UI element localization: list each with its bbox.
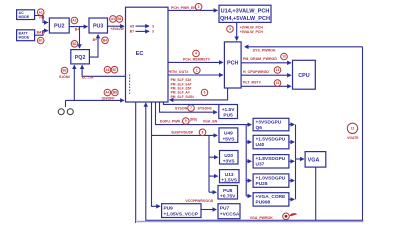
svg-text:+1.5V: +1.5V [222, 107, 235, 113]
second column feed bus [246, 125, 251, 196]
first column feed bus [209, 135, 218, 192]
svg-text:PLT_RST#: PLT_RST# [243, 80, 261, 84]
wire BATT MODE to PU2 (BATT) [35, 31, 48, 36]
svg-text:BATT: BATT [37, 31, 47, 35]
wire SYS_PWROK into PCH [245, 46, 363, 48]
svg-text:7: 7 [190, 106, 192, 110]
svg-text:EC_ON: EC_ON [82, 75, 94, 79]
callout B8 [112, 89, 119, 96]
svg-text:B+: B+ [93, 38, 97, 42]
svg-text:MODE: MODE [19, 15, 30, 19]
svg-text:EC: EC [136, 51, 144, 57]
callout 6 [201, 89, 208, 96]
EC internal page ref A5 [130, 24, 154, 28]
svg-text:+1.5VSDGPU: +1.5VSDGPU [256, 137, 286, 143]
svg-text:3: 3 [152, 30, 154, 34]
svg-text:A6: A6 [105, 68, 109, 72]
svg-text:PU5: PU5 [223, 113, 233, 119]
svg-text:PU998: PU998 [256, 200, 271, 206]
svg-text:A3: A3 [111, 17, 115, 21]
page border bottom [137, 221, 363, 223]
svg-text:+3VSDGPU: +3VSDGPU [256, 120, 282, 126]
svg-text:+3VALW: +3VALW [110, 27, 124, 31]
wire EC stub to DGPU_PWR_EN row [156, 102, 247, 125]
EC internal page ref B7 [130, 30, 154, 34]
svg-text:11: 11 [351, 127, 355, 131]
svg-text:PU2: PU2 [54, 24, 65, 30]
svg-text:H_CPUPWRGD: H_CPUPWRGD [243, 70, 269, 74]
wire EC stub to PU5 top [164, 102, 219, 104]
svg-text:B+: B+ [75, 28, 79, 32]
callout A2 [71, 17, 78, 24]
svg-text:A5: A5 [130, 24, 134, 28]
svg-text:VGA_EN: VGA_EN [203, 119, 218, 123]
svg-text:+5VS: +5VS [222, 136, 235, 142]
block VGA [305, 152, 326, 168]
svg-text:B4: B4 [103, 39, 107, 43]
svg-text:VCCPPWRGOOD: VCCPPWRGOOD [186, 199, 214, 203]
callout 8 [199, 129, 206, 136]
svg-text:B7: B7 [130, 30, 134, 34]
callout 2 [195, 4, 202, 11]
wire PU9 to PU7 [201, 209, 216, 211]
svg-text:2: 2 [198, 5, 200, 9]
svg-text:SYSON#: SYSON# [197, 107, 211, 111]
block EC [126, 7, 169, 102]
callout 13 [281, 53, 288, 60]
svg-text:+1.5VS: +1.5VS [221, 178, 238, 184]
svg-text:VGATE: VGATE [347, 136, 359, 140]
callout B2 [71, 41, 78, 48]
svg-text:4: 4 [195, 52, 197, 56]
callout B4 [102, 37, 109, 44]
svg-text:ON/OFF: ON/OFF [102, 97, 115, 101]
block AC MODE [17, 10, 35, 20]
svg-text:U13: U13 [225, 172, 234, 178]
wire PM_SLF bus PCH to EC [170, 88, 228, 100]
svg-text:9: 9 [185, 119, 187, 123]
svg-text:A2: A2 [72, 19, 76, 23]
svg-text:PU28: PU28 [256, 181, 268, 187]
svg-text:+3VS: +3VS [223, 159, 236, 165]
svg-text:CPU: CPU [298, 73, 309, 79]
svg-text:+1.8VSDGPU: +1.8VSDGPU [256, 156, 286, 162]
svg-text:A4: A4 [105, 91, 109, 95]
callout 9 [183, 118, 190, 125]
wire PQ2 to PU3 bottom (B+) [89, 35, 98, 57]
wire S1ON# PQ2 to ON/OFF row [73, 66, 75, 101]
svg-text:U14,+3VALW_PCH: U14,+3VALW_PCH [221, 9, 270, 15]
block PU7 [218, 204, 240, 219]
wire EC bottom stub to page bottom [135, 102, 137, 223]
svg-text:+5VALW_PCH: +5VALW_PCH [240, 30, 264, 34]
svg-text:6: 6 [204, 91, 206, 95]
callout B6 [116, 16, 123, 23]
callout B1 [37, 37, 44, 44]
wire AC MODE to PU2 (VIN) [35, 16, 48, 23]
block PQ2 [71, 50, 90, 64]
svg-text:B1: B1 [39, 39, 43, 43]
power button contacts [58, 109, 73, 115]
block BATT MODE [17, 30, 35, 41]
wire PCH to CPU (PLT_RST#) [241, 85, 291, 87]
callout A6 [104, 66, 111, 73]
svg-text:B8: B8 [113, 91, 117, 95]
second column collect bus to VGA [289, 125, 304, 200]
svg-text:SYSON: SYSON [175, 107, 188, 111]
svg-text:SUSP#/SUSP: SUSP#/SUSP [171, 131, 194, 135]
block U20 [220, 151, 239, 165]
callout B7 [111, 66, 118, 73]
svg-text:1: 1 [196, 69, 198, 73]
callout 16 [283, 213, 298, 220]
block PU2 [49, 18, 69, 33]
svg-text:Q6: Q6 [256, 125, 263, 131]
wire SYS_PWROK loop rail [146, 47, 363, 221]
block PCH [224, 42, 241, 88]
callout 1 [194, 67, 201, 74]
svg-text:3: 3 [229, 27, 231, 31]
block Q6 [253, 118, 289, 131]
wire VGA to bottom rail (VGA_PWROK) [315, 167, 317, 220]
block PU3 [89, 18, 108, 33]
callout 11 (VGATE) [347, 123, 357, 133]
callout 14 [274, 67, 281, 74]
svg-text:VGA: VGA [308, 158, 320, 164]
svg-text:U40: U40 [256, 142, 265, 148]
block U14 regulator [219, 5, 271, 22]
svg-text:+VCCSA: +VCCSA [220, 212, 240, 218]
svg-text:PU8: PU8 [223, 188, 233, 194]
svg-text:B6: B6 [117, 17, 121, 21]
svg-text:14: 14 [276, 68, 280, 72]
svg-text:13: 13 [282, 55, 286, 59]
block U13 [220, 170, 240, 184]
wire PCH to CPU (PM_DRAM_PWRGD) [241, 62, 291, 64]
wire ON/OFF row into EC [66, 99, 124, 101]
svg-text:15: 15 [276, 81, 280, 85]
wire EC stub to SYSON row into PU5 [160, 102, 217, 112]
svg-text:SYS_PWROK: SYS_PWROK [253, 48, 276, 52]
block PU8 [218, 186, 238, 200]
svg-text:PU3: PU3 [93, 24, 104, 30]
svg-text:(DIS): (DIS) [190, 117, 197, 121]
svg-text:QH4,+5VALW_PCH: QH4,+5VALW_PCH [220, 16, 270, 22]
svg-text:MODE: MODE [19, 35, 30, 39]
svg-text:S1ON#: S1ON# [59, 75, 70, 79]
svg-text:B2: B2 [72, 42, 76, 46]
svg-text:PCH_PWR_EN#: PCH_PWR_EN# [171, 6, 198, 10]
wire EC to U14 (PCH_PWR_EN#) [168, 9, 217, 11]
block PU5 [219, 105, 238, 119]
svg-text:VIN: VIN [39, 15, 45, 19]
block PU998 [253, 193, 289, 206]
svg-text:8: 8 [202, 131, 204, 135]
wire PCH to CPU (H_CPUPWRGD) [241, 74, 291, 76]
callout 7 [188, 105, 195, 112]
svg-text:PU7: PU7 [220, 206, 230, 212]
wire EC stub to SUSP row and PU9 [152, 102, 218, 206]
callout 3 [227, 26, 234, 33]
block U40 [253, 135, 289, 149]
svg-text:U49: U49 [224, 130, 233, 136]
block U37 [253, 155, 289, 168]
svg-text:+1.05VS_VCCP: +1.05VS_VCCP [164, 212, 199, 218]
wire U14 to PCH [236, 22, 238, 40]
callout A4 [104, 89, 111, 96]
svg-text:B7: B7 [112, 68, 116, 72]
svg-text:PCH: PCH [227, 60, 238, 66]
wire PU3 to EC (+3VALW) [108, 25, 124, 27]
dashed net inside EC [129, 75, 131, 95]
wire EC_ON PQ2 to EC [82, 66, 130, 77]
callout 15 [274, 80, 281, 87]
svg-text:B3: B3 [62, 69, 66, 73]
power button stub [65, 100, 67, 107]
svg-text:+VGA_CORE: +VGA_CORE [256, 194, 287, 200]
svg-text:PU9: PU9 [164, 206, 174, 212]
wire B+ branch down to PQ2 [79, 27, 81, 48]
callout A3 [110, 16, 117, 23]
svg-text:U37: U37 [256, 162, 265, 168]
svg-text:PETN_OUT#: PETN_OUT# [167, 70, 188, 74]
wire EC to PCH (PCH_RSMRST#) [168, 61, 223, 63]
svg-text:A1: A1 [39, 10, 43, 14]
svg-text:VGA_PWROK: VGA_PWROK [250, 216, 273, 220]
svg-text:PQ2: PQ2 [75, 55, 86, 61]
callout B3 [61, 67, 68, 74]
block CPU [293, 60, 316, 89]
wire EC to PCH (PETN_OUT#) [168, 74, 223, 76]
block PU9 [162, 204, 201, 218]
svg-text:PM_SLF_SUS#: PM_SLF_SUS# [171, 95, 195, 99]
callout 4 [193, 50, 200, 57]
svg-text:U20: U20 [224, 153, 233, 159]
block PU28 [253, 174, 289, 187]
block U49 [219, 128, 238, 142]
svg-text:+0.75V: +0.75V [220, 194, 236, 200]
callout A1 [37, 9, 44, 16]
svg-text:3: 3 [152, 24, 154, 28]
svg-text:PCH_RSMRST#: PCH_RSMRST# [183, 57, 210, 61]
svg-text:PM_DRAM_PWRGD: PM_DRAM_PWRGD [243, 57, 277, 61]
wire PU2 to PU3 (B+) [69, 26, 87, 28]
svg-text:+1.0VSDGPU: +1.0VSDGPU [256, 175, 286, 181]
